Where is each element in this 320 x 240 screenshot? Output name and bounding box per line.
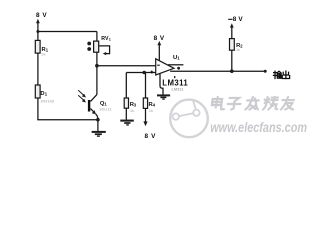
svg-text:www.elecfans.com: www.elecfans.com [210, 120, 307, 135]
svg-text:8: 8 [233, 16, 237, 23]
svg-text:V: V [42, 12, 47, 19]
svg-text:8: 8 [36, 12, 40, 19]
svg-text:V: V [160, 35, 165, 42]
svg-text:1: 1 [109, 38, 111, 42]
svg-text:8: 8 [154, 35, 158, 42]
svg-text:1N4148: 1N4148 [40, 98, 54, 103]
svg-text:RV: RV [101, 36, 109, 42]
svg-text:V: V [238, 16, 243, 23]
svg-text:3DU12: 3DU12 [99, 107, 112, 112]
svg-text:8: 8 [145, 133, 149, 140]
svg-text:V: V [151, 133, 156, 140]
svg-text:LM311: LM311 [172, 87, 185, 92]
